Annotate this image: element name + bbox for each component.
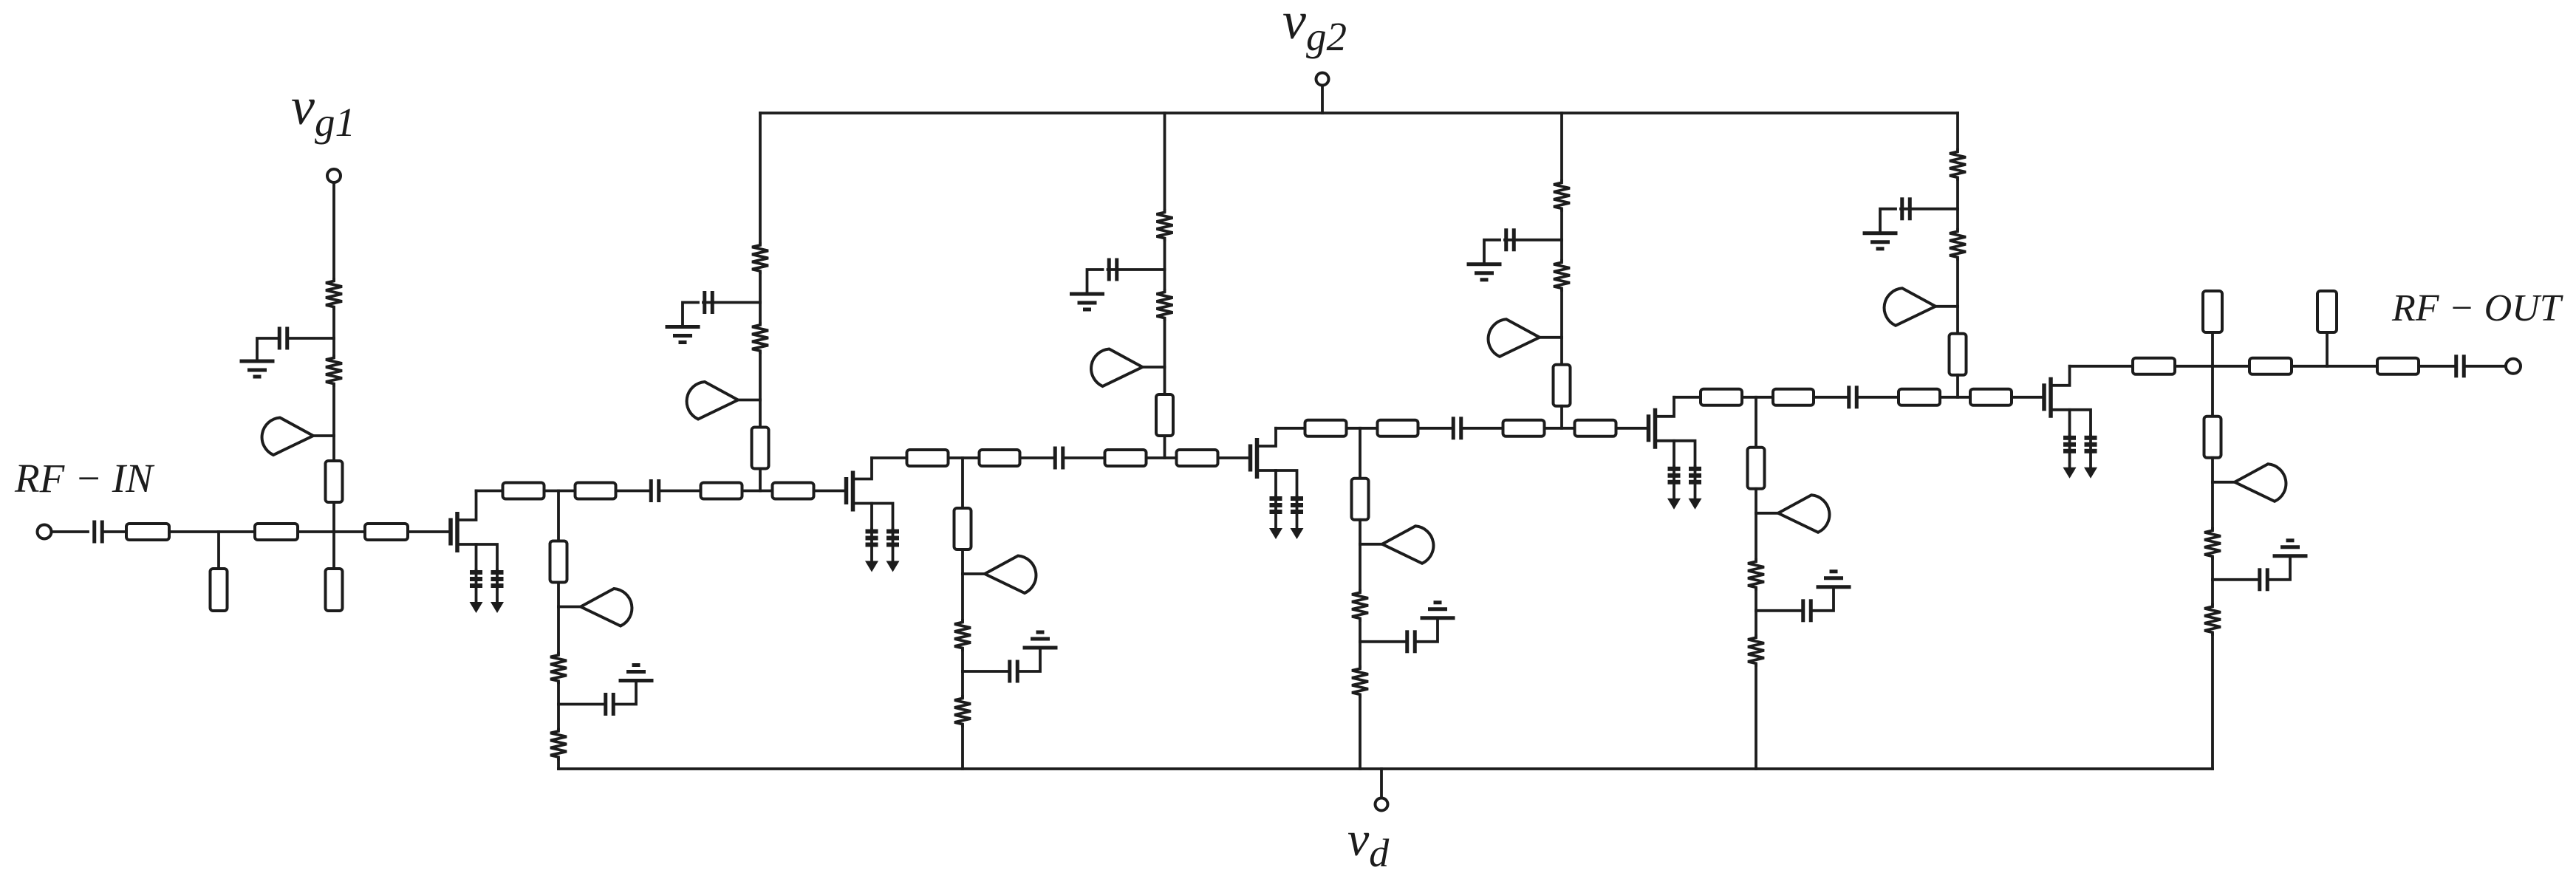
port P1 RF-IN terminal — [38, 525, 52, 539]
wire — [2211, 458, 2214, 482]
via ground — [1291, 496, 1304, 539]
capacitor C5 interstage DC block — [1453, 417, 1461, 439]
capacitor C8 bypass — [1087, 258, 1165, 293]
wire to open stub — [2211, 332, 2214, 366]
resistor R11 drain bias — [550, 654, 567, 683]
wire — [1560, 290, 1563, 338]
transmission line TL25 gate feed — [1554, 365, 1571, 406]
open stub TL34 — [2317, 291, 2337, 332]
transmission line TL9 — [701, 483, 742, 499]
wire — [1956, 179, 1959, 209]
wire — [1560, 240, 1563, 261]
ground — [1863, 233, 1898, 249]
transmission line TL26 gate feed — [1950, 334, 1967, 375]
capacitor C12 bypass — [963, 649, 1040, 683]
wire — [1164, 270, 1166, 290]
wire — [332, 309, 335, 338]
wire — [408, 530, 449, 533]
radial stub ST6 — [558, 589, 632, 626]
radial stub ST9 — [1756, 495, 1829, 532]
wire vd stem — [1380, 769, 1383, 798]
wire — [1674, 396, 1701, 399]
wire — [1755, 611, 1757, 636]
wire vg2 branch — [759, 113, 762, 244]
wire — [2012, 396, 2043, 399]
resistor R9 gate bias — [1950, 150, 1966, 179]
transistor Q5 — [2044, 366, 2091, 436]
transistor Q4 — [1649, 397, 1695, 467]
ground — [666, 327, 700, 343]
wire vg2 branch — [1956, 113, 1959, 150]
wire to open stub — [2326, 332, 2329, 366]
wire — [557, 607, 560, 654]
ground (inverted) — [2273, 541, 2308, 556]
transmission line TL24 gate feed — [1156, 394, 1173, 436]
transmission line TL21 — [1899, 389, 1940, 405]
radial stub ST7 — [963, 556, 1036, 594]
wire — [544, 490, 575, 493]
wire — [298, 530, 365, 533]
wire — [557, 583, 560, 607]
wire — [1956, 209, 1959, 230]
radial stub ST10 — [2213, 464, 2286, 501]
wire — [1956, 259, 1959, 306]
transmission line TL28 drain feed — [954, 508, 971, 549]
transmission line TL11 — [907, 450, 949, 466]
wire — [961, 671, 964, 696]
wire — [1560, 406, 1563, 428]
wire — [1545, 427, 1575, 430]
resistor R19 drain bias — [2204, 529, 2221, 558]
RF-OUT port label — [2391, 287, 2563, 329]
open stub TL4 — [326, 569, 343, 611]
wire — [1359, 520, 1362, 544]
vg2 label — [1282, 0, 1347, 59]
ground — [240, 361, 275, 377]
wire — [759, 469, 762, 491]
wire vg2 bus — [760, 112, 1958, 114]
wire — [1218, 456, 1249, 459]
transistor Q3 — [1251, 428, 1297, 496]
wire — [2292, 365, 2377, 368]
resistor R18 drain bias — [1748, 636, 1764, 665]
transmission line TL1 — [126, 524, 169, 540]
wire — [1742, 396, 1773, 399]
transmission line TL23 gate feed — [752, 428, 769, 469]
transmission line TL14 — [1177, 450, 1218, 466]
capacitor C15 output DC block — [2456, 355, 2464, 377]
wire — [949, 456, 980, 459]
capacitor C2 vg1 bypass — [257, 327, 334, 360]
transmission line TL5 — [365, 524, 408, 540]
wire — [1858, 396, 1899, 399]
wire — [759, 303, 762, 323]
wire — [1956, 375, 1959, 397]
port vg2 terminal — [1316, 73, 1329, 86]
resistor R7 gate bias — [1554, 181, 1570, 210]
wire — [1020, 456, 1054, 459]
wire vg2 branch — [1560, 113, 1563, 181]
transmission line TL30 drain feed — [1748, 448, 1765, 489]
wire — [557, 491, 560, 541]
radial stub ST8 — [1360, 526, 1433, 564]
via ground — [1269, 496, 1282, 539]
wire — [742, 490, 773, 493]
capacitor C16 bypass — [2213, 558, 2290, 592]
resistor R5 gate bias — [1157, 210, 1173, 240]
via ground — [1667, 467, 1681, 510]
resistor R20 drain bias — [2204, 605, 2221, 634]
wire — [2211, 580, 2214, 605]
wire — [557, 683, 560, 705]
transmission line TL35 — [2377, 358, 2419, 374]
wire — [1560, 338, 1563, 365]
capacitor C6 interstage DC block — [1849, 386, 1857, 408]
wire — [2211, 634, 2214, 769]
ground (inverted) — [1421, 603, 1455, 618]
wire vd bus — [558, 767, 2213, 770]
transmission line TL16 — [1378, 420, 1418, 436]
capacitor C3 interstage DC block — [651, 479, 659, 502]
ground (inverted) — [1817, 572, 1851, 587]
via ground — [2084, 436, 2097, 479]
resistor R17 drain bias — [1748, 560, 1764, 589]
node B / wire to open stub — [332, 532, 335, 569]
wire — [1359, 544, 1362, 591]
transmission line TL12 — [980, 450, 1020, 466]
capacitor C11 bypass — [558, 682, 636, 716]
wire — [2070, 365, 2133, 368]
wire — [332, 502, 335, 532]
wire — [1347, 427, 1378, 430]
wire — [1065, 456, 1105, 459]
wire — [1164, 320, 1166, 367]
wire — [759, 353, 762, 400]
transmission line TL22 — [1970, 389, 2012, 405]
port vd terminal — [1376, 798, 1388, 811]
resistor R1 vg1 — [326, 279, 342, 309]
vd label — [1347, 812, 1390, 875]
wire — [2419, 365, 2455, 368]
wire — [1463, 427, 1503, 430]
resistor R8 gate bias — [1554, 261, 1570, 290]
ground (inverted) — [619, 665, 654, 681]
transmission line TL7 — [503, 483, 544, 499]
transmission line TL10 — [773, 483, 814, 499]
wire — [1940, 396, 1970, 399]
wire — [1956, 306, 1959, 334]
wire — [169, 530, 255, 533]
capacitor C4 interstage DC block — [1055, 447, 1063, 470]
resistor R4 gate bias — [752, 323, 768, 353]
wire — [1164, 436, 1166, 458]
wire — [1755, 589, 1757, 611]
wire — [660, 490, 701, 493]
transmission line TL19 — [1701, 389, 1742, 405]
capacitor C7 bypass — [683, 291, 760, 326]
ground — [1070, 294, 1104, 309]
transmission line TL31 — [2133, 358, 2175, 374]
wire — [961, 574, 964, 620]
svg-text:RF − IN: RF − IN — [14, 456, 155, 501]
resistor R10 gate bias — [1950, 230, 1966, 259]
wire — [103, 530, 126, 533]
svg-text:RF − OUT: RF − OUT — [2391, 287, 2563, 329]
wire — [1164, 240, 1166, 270]
wire — [557, 759, 560, 770]
resistor R3 gate bias — [752, 244, 768, 273]
wire — [332, 386, 335, 436]
wire — [1755, 513, 1757, 560]
transistor Q2 — [847, 458, 893, 530]
wire — [759, 400, 762, 428]
wire — [332, 436, 335, 461]
transmission line TL15 — [1305, 420, 1347, 436]
ground (inverted) — [1023, 632, 1058, 648]
resistor R15 drain bias — [1352, 591, 1368, 620]
resistor R2 vg1 — [326, 356, 342, 386]
via ground — [491, 570, 504, 613]
transmission line TL6 vg1 feed — [326, 461, 343, 502]
wire — [1814, 396, 1848, 399]
ground — [1467, 264, 1502, 280]
wire — [557, 705, 560, 730]
wire — [961, 726, 964, 769]
wire — [2175, 365, 2249, 368]
RF-IN port label — [14, 456, 155, 501]
transistor Q1 — [451, 491, 497, 571]
transmission line TL3 — [255, 524, 298, 540]
wire — [332, 338, 335, 356]
wire — [1276, 427, 1305, 430]
wire — [2211, 558, 2214, 580]
transmission line TL13 — [1105, 450, 1147, 466]
open stub TL2 — [211, 569, 228, 611]
port P2 RF-OUT terminal — [2506, 359, 2521, 374]
via ground — [470, 570, 483, 613]
wire — [961, 549, 964, 574]
wire — [1560, 210, 1563, 240]
resistor R14 drain bias — [954, 696, 971, 726]
resistor R6 gate bias — [1157, 290, 1173, 320]
wire — [332, 183, 335, 280]
resistor R16 drain bias — [1352, 667, 1368, 696]
node A / wire to open stub — [217, 532, 220, 569]
transmission line TL18 — [1575, 420, 1616, 436]
wire — [476, 490, 503, 493]
wire — [1359, 620, 1362, 642]
wire — [1755, 489, 1757, 513]
vg1 label — [291, 77, 355, 145]
wire — [1359, 428, 1362, 479]
transmission line TL29 drain feed — [1352, 479, 1369, 520]
via ground — [865, 530, 878, 572]
transmission line TL20 — [1773, 389, 1814, 405]
wire — [1147, 456, 1177, 459]
capacitor C9 bypass — [1484, 228, 1562, 263]
via ground — [1689, 467, 1702, 510]
via ground — [2063, 436, 2077, 479]
wire — [1755, 397, 1757, 448]
wire — [1359, 696, 1362, 769]
wire — [616, 490, 650, 493]
wire — [1616, 427, 1647, 430]
wire vg2 stem — [1321, 86, 1324, 114]
wire — [961, 650, 964, 671]
radial stub ST5 — [1885, 288, 1958, 326]
capacitor C10 bypass — [1880, 197, 1958, 232]
wire — [2211, 482, 2214, 529]
wire — [1164, 367, 1166, 394]
capacitor C14 bypass — [1756, 589, 1834, 623]
wire — [2465, 365, 2506, 368]
wire — [1359, 642, 1362, 667]
port vg1 terminal — [327, 169, 341, 182]
via ground — [886, 530, 900, 572]
radial stub ST1 — [262, 418, 334, 456]
radial stub ST3 — [1091, 349, 1164, 387]
resistor R13 drain bias — [954, 620, 971, 650]
capacitor C13 bypass — [1360, 620, 1438, 654]
transmission line TL27 drain feed — [550, 541, 567, 583]
wire — [814, 490, 845, 493]
wire — [759, 273, 762, 303]
transmission line TL8 — [575, 483, 616, 499]
wire — [872, 456, 907, 459]
radial stub ST2 — [687, 382, 760, 419]
wire — [1755, 665, 1757, 769]
wire — [2211, 366, 2214, 417]
wire — [52, 530, 88, 533]
radial stub ST4 — [1489, 319, 1562, 357]
wire — [1418, 427, 1452, 430]
capacitor C1 input DC block — [95, 521, 103, 544]
resistor R12 drain bias — [550, 730, 567, 759]
transmission line TL17 — [1503, 420, 1545, 436]
transmission line TL33 — [2249, 358, 2292, 374]
transmission line TL36 drain feed — [2204, 417, 2221, 458]
wire — [961, 458, 964, 508]
wire vg2 branch — [1164, 113, 1166, 210]
open stub TL32 — [2203, 291, 2222, 332]
